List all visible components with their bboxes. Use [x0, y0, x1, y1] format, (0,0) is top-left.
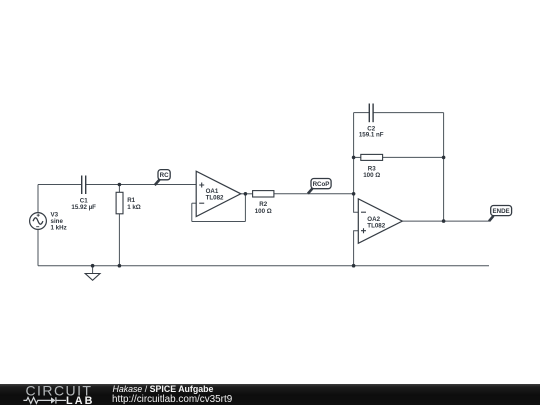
- svg-text:TL082: TL082: [206, 195, 224, 202]
- wire ground stub: [92, 266, 94, 274]
- C1 name and value labels: [71, 197, 96, 211]
- footer bar: [0, 384, 540, 405]
- resistor R3: [361, 154, 383, 160]
- svg-text:1 kΩ: 1 kΩ: [127, 204, 141, 211]
- svg-text:100 Ω: 100 Ω: [363, 172, 380, 179]
- voltage source V3: [30, 213, 47, 230]
- flag RCoP: [308, 179, 331, 194]
- capacitor C1: [82, 176, 86, 195]
- wire OA2 non-inverting input stub: [354, 231, 359, 266]
- C2 name and value labels: [359, 126, 384, 139]
- node: R1 top junction: [118, 183, 122, 187]
- footer url text: [112, 394, 232, 405]
- node: R1 bottom junction: [118, 264, 122, 268]
- wire R1 bottom leg: [118, 214, 120, 266]
- node: OA2 output junction: [442, 219, 446, 223]
- V3 name and value labels: [51, 211, 67, 231]
- wire OA2 output to ENDE: [402, 220, 489, 222]
- wire OA1 inverting input stub: [192, 202, 196, 204]
- wire R2 to RCoP node: [274, 193, 354, 195]
- resistor R2: [253, 191, 274, 197]
- R2 name and value labels: [255, 201, 272, 215]
- svg-text:159.1 nF: 159.1 nF: [359, 132, 384, 139]
- op-amp OA2: [358, 199, 402, 243]
- node: R3 left: [352, 156, 356, 160]
- svg-text:15.92 µF: 15.92 µF: [71, 204, 96, 211]
- resistor R1: [116, 192, 123, 214]
- node RCoP: [352, 192, 356, 196]
- wire feedback right vertical to output: [443, 113, 445, 222]
- op-amp OA1: [196, 171, 241, 216]
- wire top rail right (C1 to OA1 + input): [86, 184, 197, 186]
- wire bottom ground rail: [38, 265, 489, 267]
- CircuitLab logo circuit line (resistor + diode): [23, 397, 66, 403]
- capacitor C2: [369, 104, 373, 123]
- wire C2 right lead: [373, 112, 443, 114]
- wire R3 left lead: [354, 156, 361, 158]
- wire C2 left lead: [354, 112, 370, 114]
- wire OA1 feedback left vertical: [191, 203, 193, 221]
- ground: [85, 274, 100, 281]
- svg-text:LAB: LAB: [66, 395, 95, 405]
- flag RC: [155, 170, 171, 186]
- wire R3 right lead: [383, 156, 444, 158]
- wire R1 top leg: [118, 185, 120, 193]
- wire OA1 output to R2: [241, 193, 253, 195]
- wire OA1 feedback right vertical: [244, 194, 246, 222]
- svg-text:1 kHz: 1 kHz: [51, 225, 67, 232]
- svg-text:TL082: TL082: [367, 222, 385, 229]
- wire top rail left (V3 to C1): [38, 184, 82, 186]
- node: ground junction: [91, 264, 95, 268]
- R3 name and value labels: [363, 165, 380, 179]
- svg-text:100 Ω: 100 Ω: [255, 208, 272, 215]
- svg-text:ENDE: ENDE: [492, 208, 509, 215]
- wire V3 bottom leg: [37, 229, 39, 265]
- node: R3 right: [442, 156, 446, 160]
- R1 name and value labels: [127, 197, 141, 211]
- wire V3 top leg: [37, 185, 39, 213]
- node: OA1 output: [244, 192, 248, 196]
- footer title text: [113, 384, 214, 394]
- wire OA1 feedback bottom horizontal: [192, 221, 246, 223]
- wire OA2 inverting input stub: [354, 194, 359, 212]
- wire RCoP node up to C2: [353, 113, 355, 194]
- svg-text:RC: RC: [160, 172, 169, 179]
- node: OA2 + junction: [352, 264, 356, 268]
- svg-text:RCoP: RCoP: [313, 181, 330, 188]
- flag ENDE: [489, 206, 512, 222]
